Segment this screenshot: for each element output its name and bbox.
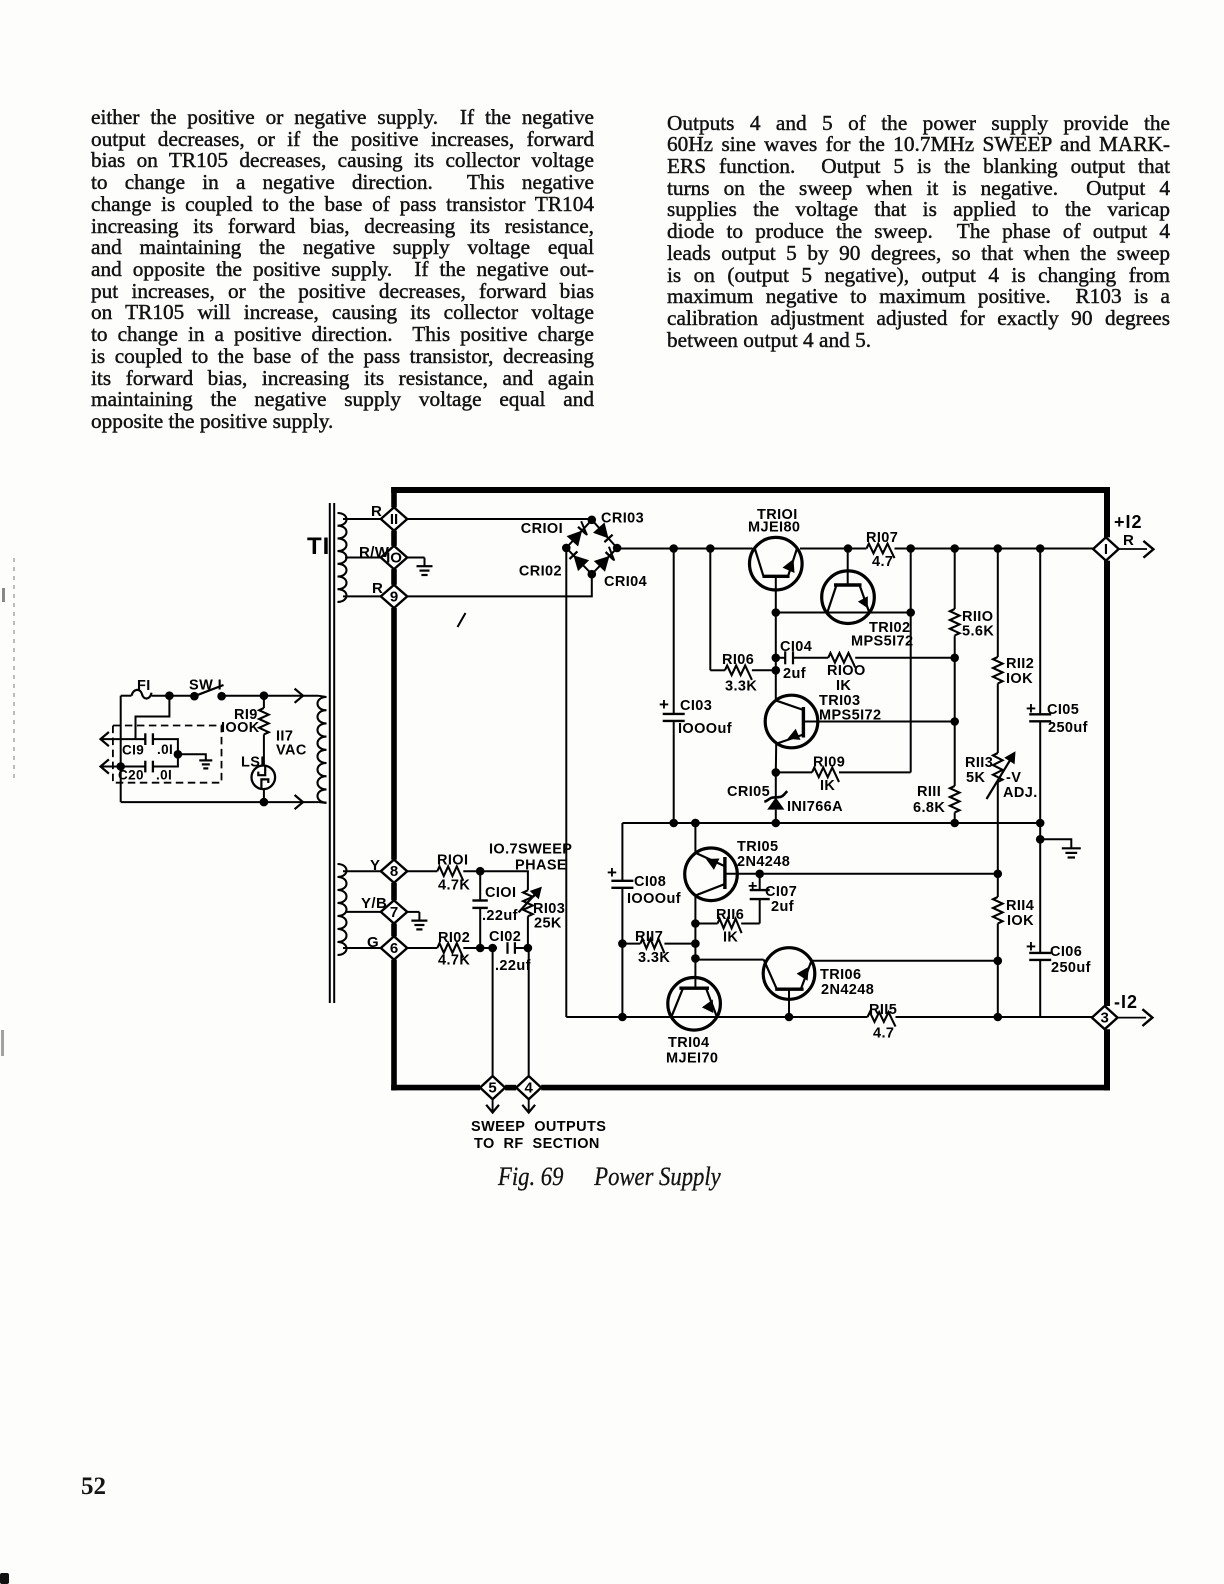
resistor R100 <box>827 653 959 694</box>
wire TR101-base column <box>772 613 781 701</box>
wire TR105 base line <box>725 870 998 879</box>
svg-text:G: G <box>367 934 379 951</box>
svg-text:CRI05: CRI05 <box>727 784 770 800</box>
capacitor C102 <box>489 929 532 974</box>
wire R103 bottom <box>527 916 529 948</box>
wire secondary-2 tap to terminal 7 <box>345 911 381 913</box>
wire TR103 base to R110 column <box>803 717 959 726</box>
svg-text:TRI05: TRI05 <box>737 839 779 855</box>
resistor R115 <box>868 1002 898 1042</box>
transistor TR101 <box>748 507 802 590</box>
wire R113 to TR105-base line <box>994 782 1003 878</box>
transistor TR105 <box>685 823 791 901</box>
svg-text:RI06: RI06 <box>722 652 754 668</box>
svg-text:IK: IK <box>723 930 738 946</box>
wire terminal 11 to bridge top node <box>407 518 592 520</box>
svg-text:250uf: 250uf <box>1048 720 1088 736</box>
wire TR106 left line <box>695 959 763 961</box>
svg-text:IOOOuf: IOOOuf <box>678 721 732 737</box>
diode CR102 <box>519 551 589 579</box>
wire F1 to SW1 <box>165 691 194 700</box>
svg-text:RI02: RI02 <box>438 930 470 946</box>
resistor R110 <box>950 549 994 658</box>
terminal 3 (-12 output) <box>1092 992 1153 1029</box>
svg-text:3.3K: 3.3K <box>638 950 670 966</box>
svg-text:MPS5I72: MPS5I72 <box>851 634 913 650</box>
capacitor C104 <box>776 639 812 682</box>
svg-text:+I2: +I2 <box>1114 512 1143 532</box>
svg-text:4.7K: 4.7K <box>438 953 470 969</box>
svg-text:CI9: CI9 <box>122 743 144 758</box>
wire secondary-1 tap to terminal 10 <box>345 557 381 559</box>
capacitor C101 <box>472 871 517 948</box>
resistor R111 <box>913 784 960 823</box>
svg-text:CI08: CI08 <box>634 874 666 890</box>
svg-text:+: + <box>659 695 669 714</box>
terminal 7 <box>361 895 407 924</box>
svg-text:I: I <box>1104 541 1108 558</box>
svg-text:Y: Y <box>370 857 380 874</box>
stray pen mark <box>458 613 466 627</box>
svg-text:IOOOuf: IOOOuf <box>627 891 681 907</box>
resistor R114 <box>993 874 1034 961</box>
wire TR105 emitter dot <box>691 819 700 828</box>
wire R19 node to T1 primary top <box>264 696 327 697</box>
svg-text:2uf: 2uf <box>783 666 806 682</box>
transistor TR106 <box>763 948 874 1000</box>
wire C104 to R100 <box>793 657 828 659</box>
svg-text:.22uf: .22uf <box>495 958 531 974</box>
terminal 11 <box>371 503 407 531</box>
svg-text:FI: FI <box>137 678 151 694</box>
wire SW1 to R19 node <box>222 691 269 700</box>
svg-text:25K: 25K <box>534 916 562 932</box>
svg-text:ADJ.: ADJ. <box>1003 785 1038 801</box>
label 10.7 SWEEP PHASE <box>489 842 572 874</box>
svg-text:RIOI: RIOI <box>437 853 468 869</box>
resistor R109 <box>776 755 911 795</box>
svg-text:9: 9 <box>390 588 398 605</box>
svg-text:6: 6 <box>390 940 398 957</box>
wire AC line bottom <box>121 767 269 807</box>
resistor R116 <box>695 907 759 946</box>
resistor R102 <box>407 930 497 969</box>
wire secondary-1 bottom to terminal 9 <box>343 595 381 597</box>
svg-text:RII6: RII6 <box>716 907 744 923</box>
terminal 5 <box>480 1076 505 1099</box>
svg-text:PHASE: PHASE <box>515 858 567 874</box>
arrow into primary bottom <box>295 795 303 809</box>
capacitor C19 <box>122 733 173 757</box>
transistor TR102 <box>822 549 914 650</box>
terminal 4 <box>516 1076 541 1099</box>
svg-text:CI03: CI03 <box>680 698 712 714</box>
wire C19 right <box>153 739 178 754</box>
terminal 9 <box>372 580 407 608</box>
wire AC line left down <box>120 696 122 767</box>
svg-text:CI04: CI04 <box>780 639 812 655</box>
svg-text:5.6K: 5.6K <box>962 624 994 640</box>
svg-text:TO RF SECTION: TO RF SECTION <box>474 1136 600 1152</box>
resistor R117 <box>618 929 695 966</box>
svg-text:IOK: IOK <box>1006 671 1033 687</box>
arrow below terminal 4 <box>522 1099 535 1112</box>
svg-text:Y/B: Y/B <box>361 895 387 912</box>
svg-text:4.7: 4.7 <box>873 1026 894 1042</box>
svg-text:.0I: .0I <box>156 768 172 783</box>
svg-text:CRI04: CRI04 <box>604 574 647 590</box>
arrow below terminal 5 <box>486 1099 499 1112</box>
resistor R106 <box>722 652 780 695</box>
svg-text:INI766A: INI766A <box>787 799 843 815</box>
wire TR106 right line <box>812 960 998 962</box>
ground (suppression network) <box>199 760 212 768</box>
fuse F1 <box>132 678 152 699</box>
terminal 6 <box>367 934 407 960</box>
wire to terminal 4 <box>528 948 530 1075</box>
diode CR104 <box>594 547 647 590</box>
wire terminal 9 to bridge bottom node <box>407 575 592 596</box>
wire C20 right <box>153 750 182 767</box>
capacitor C108 <box>607 823 681 1017</box>
wire R101 node to R103 top <box>480 871 528 890</box>
svg-text:+: + <box>607 863 617 882</box>
wire R114 column to -12 rail <box>994 957 1003 1022</box>
svg-text:RIII: RIII <box>917 784 941 800</box>
svg-text:8: 8 <box>390 863 398 880</box>
svg-text:250uf: 250uf <box>1051 960 1091 976</box>
svg-text:CI07: CI07 <box>765 884 797 900</box>
svg-text:2uf: 2uf <box>771 899 794 915</box>
svg-text:5: 5 <box>488 1080 496 1097</box>
svg-text:.22uf: .22uf <box>482 908 518 924</box>
svg-text:IOK: IOK <box>1007 913 1034 929</box>
wire R110-R111 column <box>954 658 956 786</box>
wire -12 rail <box>566 1013 1092 1022</box>
svg-text:RII7: RII7 <box>635 929 663 945</box>
capacitor C105 <box>1026 549 1088 824</box>
wire TR103 emitter down <box>772 744 781 777</box>
svg-text:CRI02: CRI02 <box>519 564 562 580</box>
ground at terminal 10 <box>407 558 432 576</box>
wire TR101 base to TR102 collector <box>776 608 915 617</box>
corner scan blemish <box>0 1573 9 1584</box>
svg-text:-V: -V <box>1006 770 1021 786</box>
lamp LS1 <box>241 755 275 790</box>
svg-text:SWEEP OUTPUTS: SWEEP OUTPUTS <box>471 1119 606 1135</box>
svg-text:CIOI: CIOI <box>485 885 516 901</box>
svg-text:II: II <box>390 511 398 528</box>
resistor R19 <box>221 696 269 766</box>
svg-text:IK: IK <box>836 678 851 694</box>
svg-text:MJEI70: MJEI70 <box>666 1051 718 1067</box>
svg-text:CRIOI: CRIOI <box>521 521 563 537</box>
svg-text:C20: C20 <box>118 768 144 783</box>
svg-text:2N4248: 2N4248 <box>737 854 790 870</box>
capacitor C103 <box>659 549 732 824</box>
svg-text:SW I: SW I <box>189 678 222 694</box>
wire TR102 emitter column <box>910 549 912 773</box>
svg-text:R: R <box>1123 532 1134 549</box>
ground (output common) <box>1062 848 1081 857</box>
svg-text:3: 3 <box>1101 1010 1109 1027</box>
svg-text:LSI: LSI <box>241 755 265 771</box>
terminal 10 <box>359 544 407 569</box>
zener diode CR105 <box>727 772 843 823</box>
svg-text:RI07: RI07 <box>866 530 898 546</box>
label SWEEP OUTPUTS TO RF SECTION <box>471 1119 606 1152</box>
svg-text:+: + <box>1026 937 1036 956</box>
capacitor C106 <box>1026 839 1091 1017</box>
svg-text:CRI03: CRI03 <box>601 511 644 527</box>
resistor R107 <box>866 530 898 570</box>
arrow out left (line 2) <box>101 759 146 773</box>
label 117 VAC <box>276 729 307 759</box>
suppression network dashed box <box>113 726 222 783</box>
svg-text:IK: IK <box>820 778 835 794</box>
bridge wiring <box>562 516 621 579</box>
wire secondary-2 top to terminal 8 <box>343 870 381 872</box>
svg-text:CI05: CI05 <box>1047 702 1079 718</box>
svg-text:IO.7SWEEP: IO.7SWEEP <box>489 842 572 858</box>
capacitor C20 <box>118 761 172 783</box>
svg-text:R: R <box>371 503 382 520</box>
svg-text:RII5: RII5 <box>869 1002 897 1018</box>
svg-text:TI: TI <box>307 533 330 560</box>
transformer T1 <box>307 503 347 1003</box>
wire secondary-1 top to terminal 11 <box>343 518 381 520</box>
wire C105 to ground node <box>1036 823 1045 844</box>
svg-text:TRI04: TRI04 <box>668 1035 710 1051</box>
svg-text:-I2: -I2 <box>1114 992 1138 1012</box>
svg-text:RII4: RII4 <box>1006 898 1034 914</box>
svg-text:IOOK: IOOK <box>221 720 260 736</box>
diode CR103 <box>593 511 644 543</box>
resistor R101 <box>407 853 484 894</box>
svg-text:MJEI80: MJEI80 <box>748 520 800 536</box>
svg-text:5K: 5K <box>966 770 985 786</box>
wire R106 branch <box>710 549 725 671</box>
wire +12 rail <box>617 544 1094 553</box>
svg-text:VAC: VAC <box>276 743 307 759</box>
wire secondary-2 bottom to terminal 6 <box>343 947 381 949</box>
svg-text:R/W: R/W <box>359 544 390 561</box>
wire to ground (suppression) <box>178 754 206 760</box>
svg-text:CI06: CI06 <box>1050 944 1082 960</box>
wire TR104 base column <box>694 958 696 988</box>
terminal 8 <box>370 857 407 883</box>
svg-text:+: + <box>1026 699 1036 718</box>
potentiometer R103 <box>519 887 566 932</box>
svg-text:6.8K: 6.8K <box>913 800 945 816</box>
capacitor C107 <box>748 874 797 924</box>
wire AC line top <box>121 695 170 697</box>
arrow into primary top <box>295 689 303 703</box>
svg-text:4: 4 <box>525 1080 534 1097</box>
svg-text:RII2: RII2 <box>1006 656 1034 672</box>
svg-text:7: 7 <box>390 904 398 921</box>
svg-text:+: + <box>748 878 758 895</box>
wire jog to C19 <box>136 696 170 739</box>
wire bridge left node down <box>565 548 567 1017</box>
terminal 1 (+12 output) <box>1093 512 1153 561</box>
potentiometer R113 <box>965 751 1038 801</box>
svg-text:RI09: RI09 <box>813 755 845 771</box>
wire to terminal 5 <box>492 948 494 1075</box>
svg-text:2N4248: 2N4248 <box>821 982 874 998</box>
ground at terminal 7 <box>407 912 427 930</box>
resistor R112 <box>993 549 1034 754</box>
svg-text:4.7: 4.7 <box>872 554 893 570</box>
diode CR101 <box>521 521 587 547</box>
svg-text:R: R <box>372 580 383 597</box>
svg-text:TRI06: TRI06 <box>820 967 862 983</box>
svg-text:4.7K: 4.7K <box>438 878 470 894</box>
switch SW1 <box>189 678 226 701</box>
left-edge scan streak <box>13 558 15 783</box>
transistor TR103 <box>765 693 881 748</box>
transistor TR104 <box>666 978 720 1067</box>
svg-text:3.3K: 3.3K <box>725 679 757 695</box>
arrow out left (line 1) <box>101 732 146 746</box>
wire ground branch <box>1040 839 1071 848</box>
svg-text:RIOO: RIOO <box>827 663 866 679</box>
wire negative-reference rail <box>622 819 1044 828</box>
wire TR106 base down <box>785 989 794 1021</box>
svg-text:RII3: RII3 <box>965 755 993 771</box>
wire LS1 to primary bottom <box>264 789 327 803</box>
svg-text:.0I: .0I <box>157 742 173 757</box>
wire TR101 base down <box>772 576 781 617</box>
wire TR105 collector column <box>691 896 700 962</box>
svg-text:CI02: CI02 <box>489 929 521 945</box>
